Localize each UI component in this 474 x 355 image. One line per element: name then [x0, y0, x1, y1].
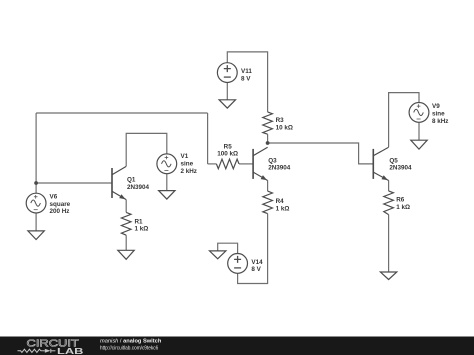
wire R4 to V14	[238, 214, 268, 284]
wire Q5 collector to V9	[389, 93, 419, 148]
svg-text:R1: R1	[135, 218, 144, 225]
transistor Q1	[112, 166, 126, 199]
label V6	[50, 194, 71, 215]
ground V1	[159, 191, 175, 200]
wire	[35, 183, 37, 193]
wire Q1 collector to V1	[126, 133, 167, 166]
wire Q5 emitter to R6	[388, 180, 390, 191]
wire R3 to node B	[267, 134, 269, 143]
resistor R4	[263, 191, 273, 214]
svg-text:2 kHz: 2 kHz	[181, 168, 197, 175]
wire V1 bottom	[166, 174, 168, 191]
ground V11	[219, 100, 235, 108]
label R5	[217, 144, 238, 158]
node A junction dot	[34, 181, 38, 185]
label V11	[241, 68, 252, 82]
ground R6	[380, 272, 396, 280]
logo diode	[43, 349, 56, 353]
wire Q3 emitter to R4	[267, 180, 269, 191]
svg-text:Q5: Q5	[389, 157, 398, 164]
svg-text:2N3904: 2N3904	[389, 164, 412, 171]
node B junction dot	[266, 141, 270, 145]
svg-text:8 kHz: 8 kHz	[432, 118, 448, 125]
voltage source V9	[409, 103, 429, 123]
svg-text:V9: V9	[432, 103, 440, 110]
label R4	[276, 198, 290, 212]
label R3	[276, 117, 293, 131]
svg-text:R3: R3	[276, 117, 285, 124]
wire R5 to Q3 base	[239, 163, 253, 165]
svg-text:8 V: 8 V	[241, 75, 251, 82]
svg-text:V6: V6	[50, 194, 58, 201]
svg-text:sine: sine	[432, 111, 445, 118]
resistor R5	[216, 159, 239, 169]
wire top horizontal	[36, 112, 208, 114]
svg-text:Q3: Q3	[268, 157, 277, 164]
svg-text:10 kΩ: 10 kΩ	[276, 125, 293, 132]
footer bar	[0, 337, 474, 355]
transistor Q5	[373, 147, 388, 180]
svg-text:V1: V1	[181, 153, 189, 160]
ground V14	[210, 251, 226, 259]
wire V9 bottom	[418, 122, 420, 140]
voltage source V11	[217, 63, 237, 83]
svg-text:2N3904: 2N3904	[268, 164, 291, 171]
svg-text:Q1: Q1	[127, 177, 136, 184]
ground R1	[118, 250, 134, 259]
svg-text:R6: R6	[396, 197, 405, 204]
label Q5	[389, 157, 412, 171]
svg-text:2N3904: 2N3904	[127, 184, 150, 191]
label V14	[251, 259, 263, 273]
ground V9	[411, 140, 427, 149]
wire to R5	[208, 163, 217, 165]
label Q3	[268, 157, 291, 171]
logo resistor	[18, 349, 43, 352]
svg-text:http://circuitlab.com/c9tekc6: http://circuitlab.com/c9tekc6	[100, 345, 158, 351]
svg-text:LAB: LAB	[57, 346, 84, 355]
label V1	[181, 153, 197, 175]
wire V6 bottom	[35, 213, 37, 231]
svg-text:100 kΩ: 100 kΩ	[217, 151, 238, 158]
resistor R6	[384, 191, 394, 215]
transistor Q3	[253, 147, 268, 180]
wire node A up	[35, 113, 37, 183]
svg-text:1 kΩ: 1 kΩ	[276, 205, 290, 212]
svg-text:1 kΩ: 1 kΩ	[135, 226, 149, 233]
label R6	[396, 197, 410, 211]
svg-text:manish / analog Switch: manish / analog Switch	[100, 338, 162, 344]
svg-text:R5: R5	[224, 144, 233, 151]
label Q1	[127, 177, 150, 191]
voltage source V6	[26, 193, 46, 213]
wire V11 bottom	[226, 83, 228, 100]
wire R1 to ground	[125, 235, 127, 250]
wire node A to Q1 base	[36, 182, 112, 184]
resistor R1	[121, 212, 131, 235]
wire R6 to ground	[388, 215, 390, 272]
wire down to R5 level	[207, 113, 209, 164]
wire Q1 emitter to R1	[125, 200, 127, 213]
label R1	[135, 218, 149, 232]
voltage source V14	[228, 254, 248, 274]
resistor R3	[263, 112, 273, 134]
wire V14 top to ground	[218, 243, 238, 253]
svg-text:R4: R4	[276, 198, 285, 205]
svg-text:V11: V11	[241, 68, 252, 75]
svg-text:200 Hz: 200 Hz	[50, 208, 70, 215]
svg-text:square: square	[50, 201, 71, 208]
wire V11 top to R3	[227, 52, 267, 112]
ground V6	[28, 231, 44, 240]
svg-text:V14: V14	[251, 259, 263, 266]
svg-text:1 kΩ: 1 kΩ	[396, 204, 410, 211]
wire node B to Q5 base	[268, 143, 374, 164]
svg-text:8 V: 8 V	[251, 266, 261, 273]
svg-text:sine: sine	[181, 161, 194, 168]
voltage source V1	[157, 154, 177, 174]
label V9	[432, 103, 448, 125]
